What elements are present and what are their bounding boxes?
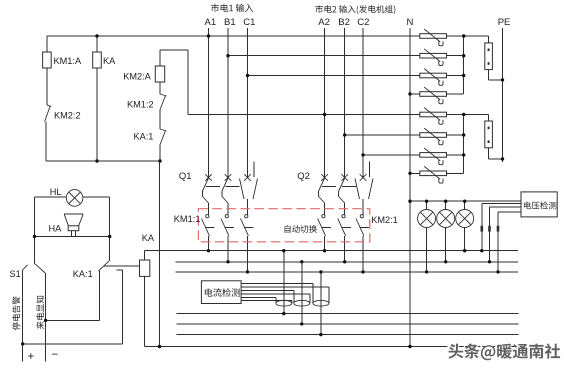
svg-text:KA: KA <box>142 233 155 243</box>
svg-text:A2: A2 <box>318 17 330 28</box>
svg-text:+: + <box>28 351 35 363</box>
svg-text:Q1: Q1 <box>179 171 192 182</box>
svg-text:KM1:2: KM1:2 <box>127 100 154 110</box>
svg-text:KM2:A: KM2:A <box>123 71 151 81</box>
svg-text:KA:1: KA:1 <box>73 269 93 279</box>
svg-text:Q2: Q2 <box>297 171 310 182</box>
svg-text:−: − <box>52 349 59 361</box>
svg-text:KM2:1: KM2:1 <box>371 215 398 225</box>
svg-text:C2: C2 <box>357 17 369 28</box>
svg-text:KM1:1: KM1:1 <box>174 214 201 224</box>
svg-text:B1: B1 <box>224 17 236 28</box>
svg-text:KM1:A: KM1:A <box>54 56 82 66</box>
svg-text:A1: A1 <box>205 17 217 28</box>
svg-text:KA: KA <box>103 56 116 66</box>
svg-text:C1: C1 <box>243 17 255 28</box>
svg-text:KM2:2: KM2:2 <box>54 110 81 120</box>
svg-text:HA: HA <box>49 223 63 233</box>
svg-text:PE: PE <box>498 17 511 28</box>
svg-text:HL: HL <box>50 187 62 197</box>
svg-text:KA:1: KA:1 <box>134 132 154 142</box>
svg-text:N: N <box>407 17 414 28</box>
svg-text:S1: S1 <box>10 269 21 279</box>
svg-text:B2: B2 <box>338 17 350 28</box>
